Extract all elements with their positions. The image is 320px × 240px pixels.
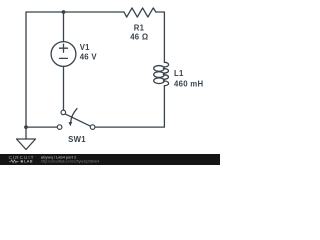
svg-text:LAB: LAB [24, 160, 33, 164]
svg-text:46 Ω: 46 Ω [130, 33, 148, 42]
svg-text:SW1: SW1 [68, 135, 86, 144]
svg-text:460 mH: 460 mH [174, 79, 204, 88]
svg-text:R1: R1 [134, 24, 145, 33]
svg-text:46 V: 46 V [80, 52, 98, 61]
svg-text:http://circuitlab.com/c/5yw3q2: http://circuitlab.com/c/5yw3q29kkk4 [41, 160, 99, 164]
svg-text:V1: V1 [80, 43, 90, 52]
svg-text:L1: L1 [174, 69, 184, 78]
